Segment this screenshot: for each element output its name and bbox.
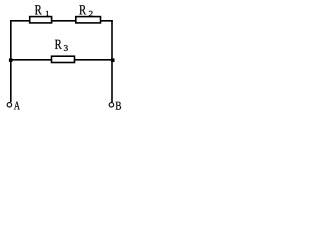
wire top horizontal [10,20,113,22]
terminal B circle [109,102,115,108]
resistor R3 [52,56,75,62]
label R2 [79,5,86,14]
label R3 subscript 3 [64,45,68,51]
wire left rail vertical [10,20,12,102]
label B [116,102,121,110]
label R1 [35,5,42,14]
label A [14,102,20,110]
resistor R1 [30,17,52,23]
wire middle horizontal [10,59,113,61]
label R3 [55,40,62,49]
wire right rail vertical [111,20,113,102]
label R1 subscript 1 [46,11,49,16]
label R2 subscript 2 [89,11,93,16]
background [0,0,132,116]
node junction left [9,58,13,62]
node junction right [111,58,115,62]
resistor R2 [76,17,101,23]
terminal A circle [7,102,13,108]
